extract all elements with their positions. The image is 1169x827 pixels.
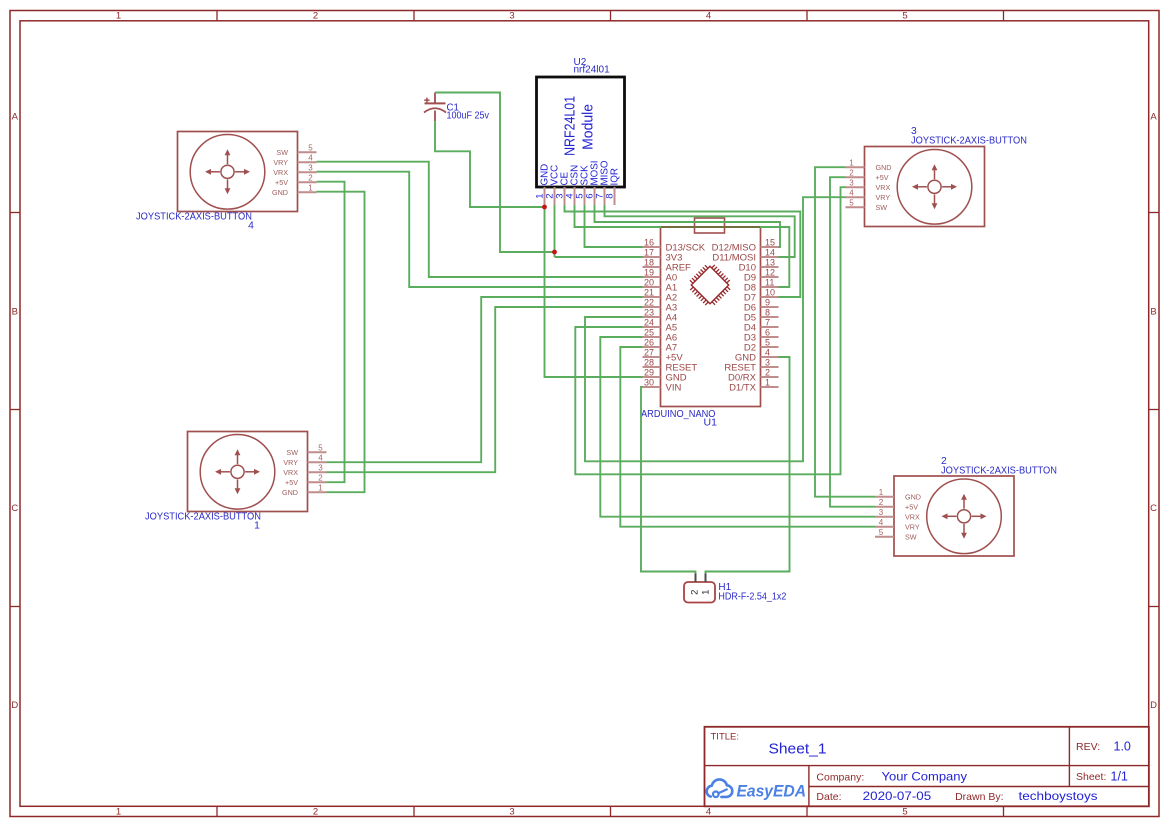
svg-text:18: 18 <box>644 257 654 267</box>
svg-text:30: 30 <box>644 377 654 387</box>
U2 pins 1-8 with labels <box>544 187 546 205</box>
svg-text:B: B <box>12 307 18 318</box>
svg-text:VRX: VRX <box>876 183 891 192</box>
svg-text:5: 5 <box>765 337 770 347</box>
svg-text:7: 7 <box>765 317 770 327</box>
wire U1.VIN to H1 pin2 <box>641 387 696 574</box>
svg-text:9: 9 <box>765 297 770 307</box>
wire J4.GND to J1.GND <box>317 192 365 493</box>
svg-text:D1/TX: D1/TX <box>729 382 757 393</box>
svg-text:11: 11 <box>765 277 774 287</box>
svg-text:GND: GND <box>282 488 298 497</box>
svg-text:4: 4 <box>765 347 770 357</box>
svg-text:1.0: 1.0 <box>1114 740 1131 754</box>
svg-text:27: 27 <box>644 347 654 357</box>
svg-text:Your Company: Your Company <box>882 769 968 783</box>
svg-text:VRX: VRX <box>273 168 288 177</box>
wire U1.A4 to J3.VRY <box>585 197 846 461</box>
frame row tick marks <box>10 212 20 214</box>
svg-text:1: 1 <box>879 488 884 497</box>
joystick J2 (JOYSTICK-2AXIS-BUTTON 2) <box>894 476 1014 556</box>
capacitor C1 symbol <box>434 93 436 104</box>
frame column tick marks <box>216 11 218 21</box>
svg-text:1: 1 <box>308 183 313 192</box>
svg-text:4: 4 <box>248 221 254 232</box>
svg-text:4: 4 <box>706 11 711 22</box>
svg-text:JOYSTICK-2AXIS-BUTTON: JOYSTICK-2AXIS-BUTTON <box>145 512 261 523</box>
wire J4.VRY to U1.A0 <box>317 162 643 277</box>
svg-text:5: 5 <box>318 443 323 452</box>
svg-text:17: 17 <box>644 247 654 257</box>
svg-text:12: 12 <box>765 267 775 277</box>
arduino U1 chip diamond <box>691 266 728 303</box>
svg-text:2: 2 <box>318 473 323 482</box>
svg-text:5: 5 <box>879 528 884 537</box>
svg-text:6: 6 <box>765 327 770 337</box>
svg-text:25: 25 <box>644 327 654 337</box>
svg-text:C: C <box>11 503 18 514</box>
EasyEDA logo <box>707 779 733 797</box>
joystick J4 (JOYSTICK-2AXIS-BUTTON 4) <box>178 132 298 212</box>
svg-text:VRY: VRY <box>273 158 288 167</box>
svg-text:+5V: +5V <box>905 503 918 512</box>
svg-text:Sheet:: Sheet: <box>1076 771 1106 783</box>
svg-text:4: 4 <box>879 518 884 527</box>
svg-text:8: 8 <box>765 307 770 317</box>
svg-text:VRY: VRY <box>876 193 891 202</box>
svg-text:D: D <box>1150 700 1157 711</box>
svg-text:2: 2 <box>313 807 318 818</box>
svg-text:VRX: VRX <box>283 468 298 477</box>
svg-text:4: 4 <box>308 153 313 162</box>
wire J1.VRX to U1.A3 <box>327 307 643 472</box>
svg-text:Company:: Company: <box>816 771 864 783</box>
svg-text:26: 26 <box>644 337 654 347</box>
joystick J3 (JOYSTICK-2AXIS-BUTTON 3) <box>865 147 985 227</box>
wire U2.CSN to U1.D8 <box>575 205 790 287</box>
svg-text:23: 23 <box>644 307 654 317</box>
svg-text:22: 22 <box>644 297 654 307</box>
svg-text:19: 19 <box>644 267 654 277</box>
title block outline <box>705 727 1149 807</box>
svg-text:1: 1 <box>765 377 770 387</box>
svg-text:1/1: 1/1 <box>1111 770 1128 784</box>
wire U2.MOSI to U1.D12 <box>595 205 781 247</box>
svg-text:U1: U1 <box>704 417 718 429</box>
svg-text:1: 1 <box>254 521 260 532</box>
svg-text:+5V: +5V <box>275 178 288 187</box>
title block divider lines <box>705 765 1149 767</box>
svg-text:15: 15 <box>765 237 775 247</box>
svg-text:8: 8 <box>604 193 615 198</box>
svg-text:IQR: IQR <box>610 168 621 185</box>
svg-text:GND: GND <box>905 493 921 502</box>
svg-text:16: 16 <box>644 237 654 247</box>
svg-text:2: 2 <box>313 11 318 22</box>
svg-text:2: 2 <box>690 590 701 595</box>
svg-text:JOYSTICK-2AXIS-BUTTON: JOYSTICK-2AXIS-BUTTON <box>911 136 1027 147</box>
svg-text:NRF24L01: NRF24L01 <box>562 96 579 156</box>
svg-text:HDR-F-2.54_1x2: HDR-F-2.54_1x2 <box>718 592 786 603</box>
svg-text:JOYSTICK-2AXIS-BUTTON: JOYSTICK-2AXIS-BUTTON <box>136 212 252 223</box>
wire J4.+5V to J1.+5V <box>317 182 345 483</box>
svg-text:2: 2 <box>879 498 884 507</box>
svg-text:14: 14 <box>765 247 775 257</box>
arduino U1 usb connector rect <box>695 218 725 233</box>
svg-text:1: 1 <box>116 11 121 22</box>
wire C1 top to U2.VCC node <box>435 93 555 253</box>
arduino top edge over CSN wire <box>661 226 760 228</box>
svg-text:SW: SW <box>286 448 298 457</box>
svg-text:24: 24 <box>644 317 654 327</box>
wire U1.A6 to J2.VRX <box>600 337 875 517</box>
svg-text:1: 1 <box>701 590 712 595</box>
svg-text:13: 13 <box>765 257 775 267</box>
joystick J1 (JOYSTICK-2AXIS-BUTTON 1) <box>188 432 308 512</box>
svg-text:1: 1 <box>318 483 323 492</box>
svg-text:3: 3 <box>308 163 313 172</box>
header H1 HDR-F-2.54_1x2 <box>684 582 715 603</box>
svg-text:100uF 25v: 100uF 25v <box>447 111 490 122</box>
svg-text:5: 5 <box>308 143 313 152</box>
wire C1 bottom to U2.GND node <box>435 121 545 207</box>
junction node GND <box>542 205 547 210</box>
svg-text:4: 4 <box>849 188 854 197</box>
svg-text:3: 3 <box>509 807 514 818</box>
svg-text:5: 5 <box>902 807 907 818</box>
svg-text:4: 4 <box>706 807 711 818</box>
svg-text:4: 4 <box>318 453 323 462</box>
svg-text:A: A <box>1150 112 1157 123</box>
svg-text:Module: Module <box>581 104 597 150</box>
svg-text:29: 29 <box>644 367 654 377</box>
svg-text:5: 5 <box>902 11 907 22</box>
svg-text:1: 1 <box>849 158 854 167</box>
svg-text:Drawn By:: Drawn By: <box>955 791 1003 803</box>
wire J3.+5V to J2.+5V <box>830 177 875 507</box>
wire U2.MISO to U1.D11 <box>605 205 795 257</box>
svg-text:5: 5 <box>849 198 854 207</box>
wire J3.GND to J2.GND <box>815 167 875 497</box>
wire U2.CE to U1.D7 <box>565 205 801 297</box>
wire U2.GND down to U1.GND29 <box>545 205 643 377</box>
svg-text:Date:: Date: <box>816 791 841 803</box>
svg-text:+5V: +5V <box>285 478 298 487</box>
svg-text:20: 20 <box>644 277 654 287</box>
svg-text:nrf24l01: nrf24l01 <box>574 65 611 76</box>
svg-text:B: B <box>1150 307 1156 318</box>
svg-text:1: 1 <box>116 807 121 818</box>
svg-text:3: 3 <box>318 463 323 472</box>
svg-text:2: 2 <box>765 367 770 377</box>
junction node VCC <box>552 250 557 255</box>
svg-text:GND: GND <box>272 188 288 197</box>
svg-text:28: 28 <box>644 357 654 367</box>
svg-text:VRX: VRX <box>905 513 920 522</box>
wire H1 pin1 to U1.GND4 <box>706 357 790 574</box>
svg-text:SW: SW <box>905 533 917 542</box>
nrf24l01 module U2 box <box>537 77 625 187</box>
svg-text:VRY: VRY <box>905 523 920 532</box>
wire U1.A5 to J3.VRX <box>575 187 845 474</box>
arduino U1 body <box>661 227 761 407</box>
svg-text:D: D <box>11 700 18 711</box>
svg-text:A: A <box>12 112 19 123</box>
svg-text:JOYSTICK-2AXIS-BUTTON: JOYSTICK-2AXIS-BUTTON <box>941 466 1057 477</box>
wire J4.VRX to U1.A1 <box>317 172 643 287</box>
svg-text:Sheet_1: Sheet_1 <box>769 742 827 758</box>
wire VCC node to U1.3V3 <box>555 256 643 258</box>
svg-text:techboystoys: techboystoys <box>1019 789 1098 803</box>
svg-text:2: 2 <box>308 173 313 182</box>
svg-text:3: 3 <box>849 178 854 187</box>
wire U2.SCK to U1.D13 <box>585 205 643 247</box>
svg-text:EasyEDA: EasyEDA <box>737 782 807 801</box>
svg-text:2: 2 <box>849 168 854 177</box>
svg-text:VRY: VRY <box>283 458 298 467</box>
svg-text:SW: SW <box>876 203 888 212</box>
svg-text:+5V: +5V <box>876 173 889 182</box>
svg-text:REV:: REV: <box>1076 741 1100 753</box>
wire U1.A7 to J2.VRY <box>620 347 875 527</box>
svg-text:10: 10 <box>765 287 775 297</box>
svg-text:VIN: VIN <box>666 382 682 393</box>
svg-text:2020-07-05: 2020-07-05 <box>863 789 932 803</box>
arduino U1 pins 16-30 and 1-15 <box>643 246 661 248</box>
svg-text:SW: SW <box>276 148 288 157</box>
svg-text:3: 3 <box>509 11 514 22</box>
svg-text:TITLE:: TITLE: <box>711 732 740 743</box>
svg-text:C: C <box>1150 503 1157 514</box>
svg-text:21: 21 <box>644 287 654 297</box>
wire J1.VRY to U1.A2 <box>327 297 643 462</box>
svg-text:3: 3 <box>879 508 884 517</box>
wire U2.VCC down <box>554 205 556 257</box>
svg-text:3: 3 <box>765 357 770 367</box>
svg-text:GND: GND <box>876 163 892 172</box>
